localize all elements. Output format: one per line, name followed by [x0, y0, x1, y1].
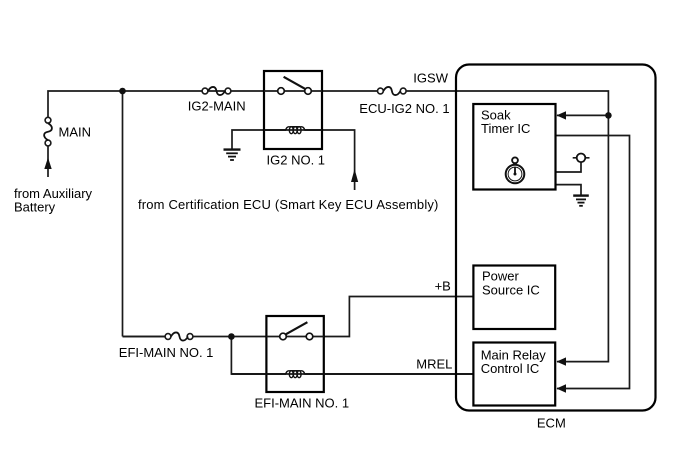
svg-text:IG2-MAIN: IG2-MAIN [188, 98, 246, 113]
svg-text:MREL: MREL [416, 357, 452, 372]
svg-text:EFI-MAIN NO. 1: EFI-MAIN NO. 1 [119, 345, 214, 360]
svg-text:from Certification ECU (Smart: from Certification ECU (Smart Key ECU As… [138, 197, 439, 212]
svg-text:Source IC: Source IC [482, 282, 540, 297]
svg-text:+B: +B [435, 279, 451, 294]
svg-text:EFI-MAIN NO. 1: EFI-MAIN NO. 1 [255, 395, 350, 410]
svg-text:Battery: Battery [14, 200, 56, 215]
svg-text:Timer IC: Timer IC [481, 121, 530, 136]
svg-text:IG2 NO. 1: IG2 NO. 1 [267, 153, 326, 168]
svg-text:ECU-IG2 NO. 1: ECU-IG2 NO. 1 [359, 101, 449, 116]
svg-text:Control IC: Control IC [481, 361, 540, 376]
svg-text:ECM: ECM [537, 416, 566, 431]
svg-text:MAIN: MAIN [59, 125, 92, 140]
svg-text:IGSW: IGSW [413, 70, 448, 85]
